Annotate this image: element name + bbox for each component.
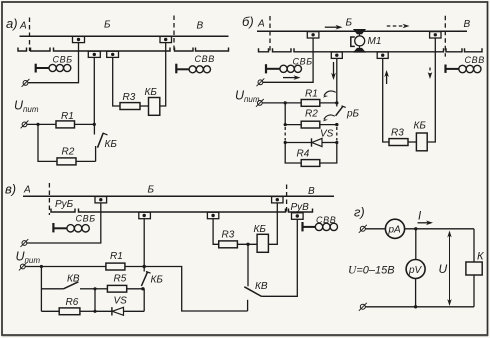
vertical wire rows [94, 289, 96, 312]
wire box2 down to relay KB [160, 43, 166, 106]
svg-text:СВБ: СВБ [76, 214, 96, 224]
svg-text:СВБ: СВБ [293, 57, 313, 67]
svg-text:R2: R2 [62, 147, 75, 158]
svg-text:В: В [308, 186, 315, 197]
up arrow beside wire [384, 70, 389, 84]
U measuring arrow [439, 231, 452, 307]
wire R2 to contact [76, 160, 96, 162]
wire box3 down to node X [143, 219, 145, 267]
svg-text:М1: М1 [368, 36, 382, 47]
diode VS [285, 129, 337, 147]
current arrow under lamps [283, 75, 301, 80]
wire box m down [336, 58, 338, 103]
svg-text:КБ: КБ [254, 224, 267, 235]
junction dot Y [141, 287, 144, 290]
svg-text:КБ: КБ [151, 275, 164, 286]
wire left branch down [38, 124, 57, 161]
rail 1 (wire) [257, 30, 467, 32]
wire R3 to relay KB [408, 141, 416, 143]
svg-text:Б: Б [346, 18, 353, 29]
svg-text:А: А [257, 19, 265, 30]
svg-text:СВБ: СВБ [53, 55, 73, 65]
wire ammeter to right leg [405, 228, 474, 230]
wire terminal to box1 [263, 38, 313, 82]
rail 1 (wire) [23, 195, 334, 197]
wire R1 to junction [75, 123, 95, 125]
wire R3 to relay [237, 243, 257, 245]
lamp group SVV [303, 215, 338, 232]
voltmeter pV [406, 260, 425, 279]
svg-text:R2: R2 [305, 109, 318, 120]
node dot [36, 123, 39, 126]
rail 2 segments (wire) [51, 209, 75, 213]
svg-text:КВ: КВ [67, 274, 80, 285]
rail 2 segments (wire) [259, 48, 269, 52]
svg-text:R1: R1 [305, 88, 318, 99]
lamp group SVB [266, 57, 313, 74]
wire R6 to node [80, 310, 95, 312]
svg-text:R3: R3 [123, 92, 136, 103]
node dot [40, 265, 43, 268]
terminal 1 [21, 239, 29, 247]
svg-text:рА: рА [388, 225, 402, 236]
rail connector box m [331, 52, 342, 58]
svg-text:в): в) [5, 182, 16, 197]
svg-text:В: В [197, 20, 204, 31]
svg-text:КБ: КБ [414, 121, 427, 132]
diode VS [95, 296, 144, 316]
rail connector box 3 [88, 51, 100, 57]
wire terminal1 to box1 [27, 203, 101, 243]
node dot [284, 101, 287, 104]
curved current arrow 2 [324, 115, 335, 119]
svg-text:В: В [464, 19, 471, 30]
wire node to R2 [285, 124, 301, 126]
rail connector box 1 [73, 36, 85, 42]
rail 2 segments with insulated joints (wire) [18, 48, 27, 52]
rail connector box 3 [139, 212, 151, 219]
wire Y down [143, 289, 145, 312]
wire junction down to KV contact [247, 244, 249, 286]
label I and arrow [418, 211, 434, 226]
svg-text:КБ: КБ [105, 139, 118, 150]
dashed wire right [336, 127, 338, 141]
rail connector box 4 [107, 51, 119, 57]
dashed current arrow [387, 24, 410, 29]
wire to voltmeter [415, 229, 417, 259]
svg-text:а): а) [6, 16, 18, 31]
wire R1 to junction [320, 102, 337, 104]
svg-text:R3: R3 [391, 128, 404, 139]
svg-text:РуБ: РуБ [55, 199, 74, 210]
lamp group SVB [36, 55, 73, 73]
svg-text:А: А [23, 185, 31, 196]
curved current arrow 1 [324, 91, 336, 96]
svg-text:R5: R5 [114, 274, 127, 285]
svg-text:рБ: рБ [346, 109, 360, 120]
dashed wire left [284, 127, 286, 141]
svg-text:рV: рV [408, 265, 423, 276]
rail connector box 4 [207, 212, 218, 219]
wire terminal1 to box1 [28, 43, 78, 83]
R4 loop wires [285, 143, 301, 164]
wire terminal2 to R1 [25, 266, 106, 268]
left vertical wire [284, 103, 286, 125]
svg-text:г): г) [354, 205, 365, 220]
left vertical wire [40, 267, 42, 312]
wire box2 down to R3 [383, 58, 389, 142]
contact KB [141, 267, 163, 287]
wire terminal2 to R1 [27, 123, 56, 125]
wire row3 left [41, 310, 59, 312]
wire terminal2 to R1 [262, 102, 301, 104]
svg-text:R4: R4 [297, 149, 310, 160]
wire R3 to relay KB [140, 105, 149, 107]
svg-text:Б: Б [104, 20, 111, 31]
lamp group SVB [53, 214, 95, 233]
svg-text:R6: R6 [66, 297, 79, 308]
boundary dashed line V [286, 185, 288, 214]
wire box5 down to KV contact [262, 219, 298, 296]
wire box3 down to relay KB [427, 38, 435, 142]
rail connector box 2 [272, 197, 283, 203]
lamp group SVV [446, 55, 485, 73]
terminal 1 [22, 79, 30, 87]
current arrow above rail [325, 25, 343, 30]
svg-text:VS: VS [114, 296, 128, 307]
terminal 2 [359, 303, 367, 311]
wire box2 down to relay KB [268, 203, 277, 244]
contact KB (make contact) [94, 124, 117, 161]
wire box4 down to R3 [213, 219, 219, 245]
right leg wire [473, 229, 475, 262]
svg-text:КБ: КБ [145, 87, 158, 98]
svg-text:СВВ: СВВ [465, 55, 485, 65]
node dots VS level [284, 141, 287, 144]
wire relay to bottom [473, 275, 475, 307]
terminal 1 [257, 78, 265, 86]
svg-text:U=0–15В: U=0–15В [348, 265, 395, 277]
lamp group SVV [176, 54, 215, 73]
boundary dashed line B/V [173, 16, 175, 54]
wire voltmeter down [415, 279, 417, 307]
svg-text:КВ: КВ [255, 281, 268, 292]
rail connector box 5 [292, 213, 304, 220]
terminal 1 [359, 225, 367, 233]
bottom wire [366, 306, 475, 308]
rail connector box 1 [95, 197, 107, 203]
svg-text:СВВ: СВВ [195, 54, 215, 64]
wire box3 down to R1 node [93, 57, 95, 124]
rail connector box 3 [430, 32, 441, 38]
wire R2 to contact bottom [320, 124, 337, 126]
rail connector box 1 [307, 32, 319, 38]
dashed down arrow beside wire [428, 68, 433, 80]
svg-text:R1: R1 [110, 251, 123, 262]
rail 1 (wire) [20, 35, 229, 37]
contact rB [336, 103, 360, 120]
contact KV (changeover) [244, 281, 268, 311]
rail connector box 2 [377, 52, 388, 58]
svg-text:А: А [19, 20, 27, 31]
boundary dashed line [48, 183, 50, 215]
svg-text:Б: Б [148, 185, 155, 196]
svg-text:К: К [477, 251, 484, 263]
svg-text:б): б) [242, 14, 254, 29]
wire box4 down to R3 [113, 57, 120, 106]
wires R5 [95, 288, 107, 290]
wire terminal to ammeter [366, 228, 386, 230]
ammeter pA [385, 219, 404, 238]
terminal 2 [19, 263, 27, 271]
boundary dashed line A/B [29, 18, 31, 52]
boundary dashed line V [444, 16, 446, 57]
rail connector box 2 [160, 36, 172, 42]
terminal 2 [256, 99, 264, 107]
wire R1 to node X [125, 266, 144, 268]
svg-text:U: U [439, 262, 448, 276]
bottom loop wire [144, 267, 247, 312]
wire row2 left [41, 288, 63, 290]
svg-text:R3: R3 [222, 230, 235, 241]
terminal 2 [21, 121, 29, 129]
down arrow beside wire [331, 62, 336, 80]
contact KV [64, 274, 96, 289]
motor M1 wheelset [351, 29, 382, 53]
boundary dashed line [269, 16, 271, 52]
node dot row2 [93, 287, 96, 290]
